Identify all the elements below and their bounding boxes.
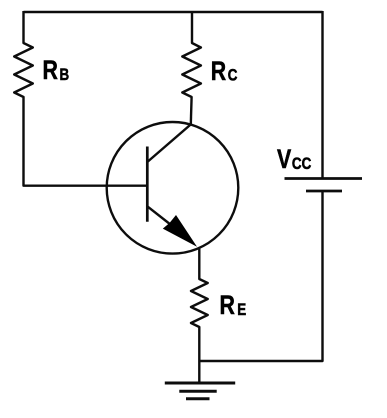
transistor Q1: base bar: [146, 147, 149, 222]
label VCC: [277, 145, 311, 175]
battery VCC: short plate (-): [306, 190, 342, 193]
wire: battery - to bottom node: [199, 191, 322, 361]
transistor Q1: collector stroke: [147, 124, 191, 162]
wire: top rail: [24, 11, 323, 13]
resistor RC (with collector lead wires): [182, 11, 201, 124]
wire: right rail to battery +: [321, 11, 323, 179]
battery VCC: long plate (+): [285, 177, 363, 180]
label RC: [211, 56, 238, 86]
transistor Q1: emitter arrowhead: [163, 215, 197, 247]
svg-text:R: R: [43, 56, 59, 86]
ground: [165, 383, 235, 399]
label RE: [220, 291, 247, 321]
transistor Q1: emitter stroke: [147, 206, 173, 226]
resistor RB (with left branch wires): [14, 11, 147, 186]
transistor Q1: body circle: [107, 122, 239, 254]
svg-text:R: R: [220, 291, 236, 321]
label RB: [43, 56, 70, 86]
resistor RE (with emitter and ground wires): [191, 248, 208, 383]
svg-text:R: R: [211, 56, 227, 86]
svg-text:E: E: [237, 300, 246, 319]
svg-text:V: V: [277, 145, 292, 175]
svg-text:B: B: [59, 65, 69, 84]
svg-text:CC: CC: [292, 154, 311, 173]
svg-text:C: C: [228, 66, 238, 85]
